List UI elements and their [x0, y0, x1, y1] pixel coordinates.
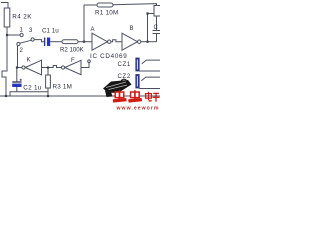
switch S contact 2	[17, 42, 20, 45]
wire top-left supply	[1, 3, 8, 9]
junction node R3 bottom	[47, 95, 49, 97]
wire R3 bottom lead	[47, 88, 49, 96]
junction node K	[16, 66, 18, 68]
svg-text:R1 10M: R1 10M	[95, 10, 119, 17]
inverter A	[92, 33, 111, 50]
svg-text:C2 1u: C2 1u	[23, 85, 42, 92]
inverter B	[122, 33, 141, 50]
wire switch arm 2-3	[20, 40, 31, 43]
wire contact 3 to C1	[34, 40, 44, 42]
wire R1 feedback vertical	[83, 5, 85, 42]
wire K output to F input with hop	[42, 66, 62, 68]
svg-text:IC CD4069: IC CD4069	[90, 53, 127, 60]
switch S contact 3	[31, 38, 34, 41]
inverter K	[22, 60, 42, 75]
switch S contact 1	[20, 33, 23, 36]
wire inverter A output	[111, 40, 122, 42]
wire bottom rail	[0, 95, 160, 97]
wire R1 right lead to top right	[113, 4, 157, 6]
resistor R2	[62, 40, 78, 44]
junction node at R4-switch	[6, 34, 8, 36]
wire R3 top lead	[47, 68, 49, 76]
wire R4 bottom lead	[6, 27, 8, 35]
junction node B output	[146, 41, 148, 43]
resistor R3	[46, 75, 51, 88]
watermark text dianzi	[146, 92, 160, 102]
svg-text:R3 1M: R3 1M	[53, 84, 73, 91]
resistor R4	[4, 8, 10, 27]
jack CZ1	[136, 58, 160, 71]
wire capacitor C bottom lead	[156, 34, 158, 42]
watermark text chongchong	[113, 90, 142, 102]
svg-text:F: F	[71, 58, 75, 64]
terminal stub circle	[88, 60, 91, 63]
wire right branch vertical	[147, 14, 149, 42]
wire right branch horizontal	[148, 13, 155, 15]
capacitor C2	[12, 79, 22, 87]
wire R2 to inverter A input	[78, 41, 92, 43]
watermark logo hat	[103, 79, 132, 97]
wire node to switch contact 1	[7, 34, 20, 36]
inverter F	[61, 60, 81, 74]
junction node R3 top	[47, 66, 49, 68]
svg-text:K: K	[27, 58, 31, 64]
svg-text:C1 1u: C1 1u	[42, 28, 59, 35]
junction node right top	[146, 12, 148, 14]
svg-text:A: A	[91, 27, 95, 33]
svg-text:CZ1: CZ1	[118, 62, 131, 68]
svg-text:R4 2K: R4 2K	[12, 14, 32, 21]
wire R1 left lead	[84, 4, 97, 6]
wire switch contact 2 stem	[17, 46, 19, 67]
svg-text:www.eeworm: www.eeworm	[116, 105, 160, 110]
resistor R5 cropped top right	[154, 6, 161, 17]
wire K junction to bubble	[17, 67, 22, 69]
jack CZ2	[136, 75, 160, 89]
svg-text:R2 100K: R2 100K	[60, 47, 84, 54]
wire C1 to R2	[50, 41, 62, 43]
wire F base to stub terminal	[81, 62, 89, 67]
junction node A input	[83, 41, 85, 43]
wire pole down with jog	[2, 35, 7, 96]
capacitor C top right	[153, 31, 161, 34]
wire C2 top lead	[16, 67, 18, 82]
wire inverter B output	[141, 41, 157, 43]
wire R5 bottom lead	[156, 16, 158, 31]
svg-text:C: C	[154, 25, 159, 31]
wire C2 bottom lead	[16, 87, 18, 92]
resistor R1	[97, 3, 113, 7]
wire bottom link segment	[10, 92, 48, 96]
junction node rail left	[5, 95, 7, 97]
capacitor C1	[44, 38, 50, 47]
svg-text:B: B	[130, 26, 134, 32]
